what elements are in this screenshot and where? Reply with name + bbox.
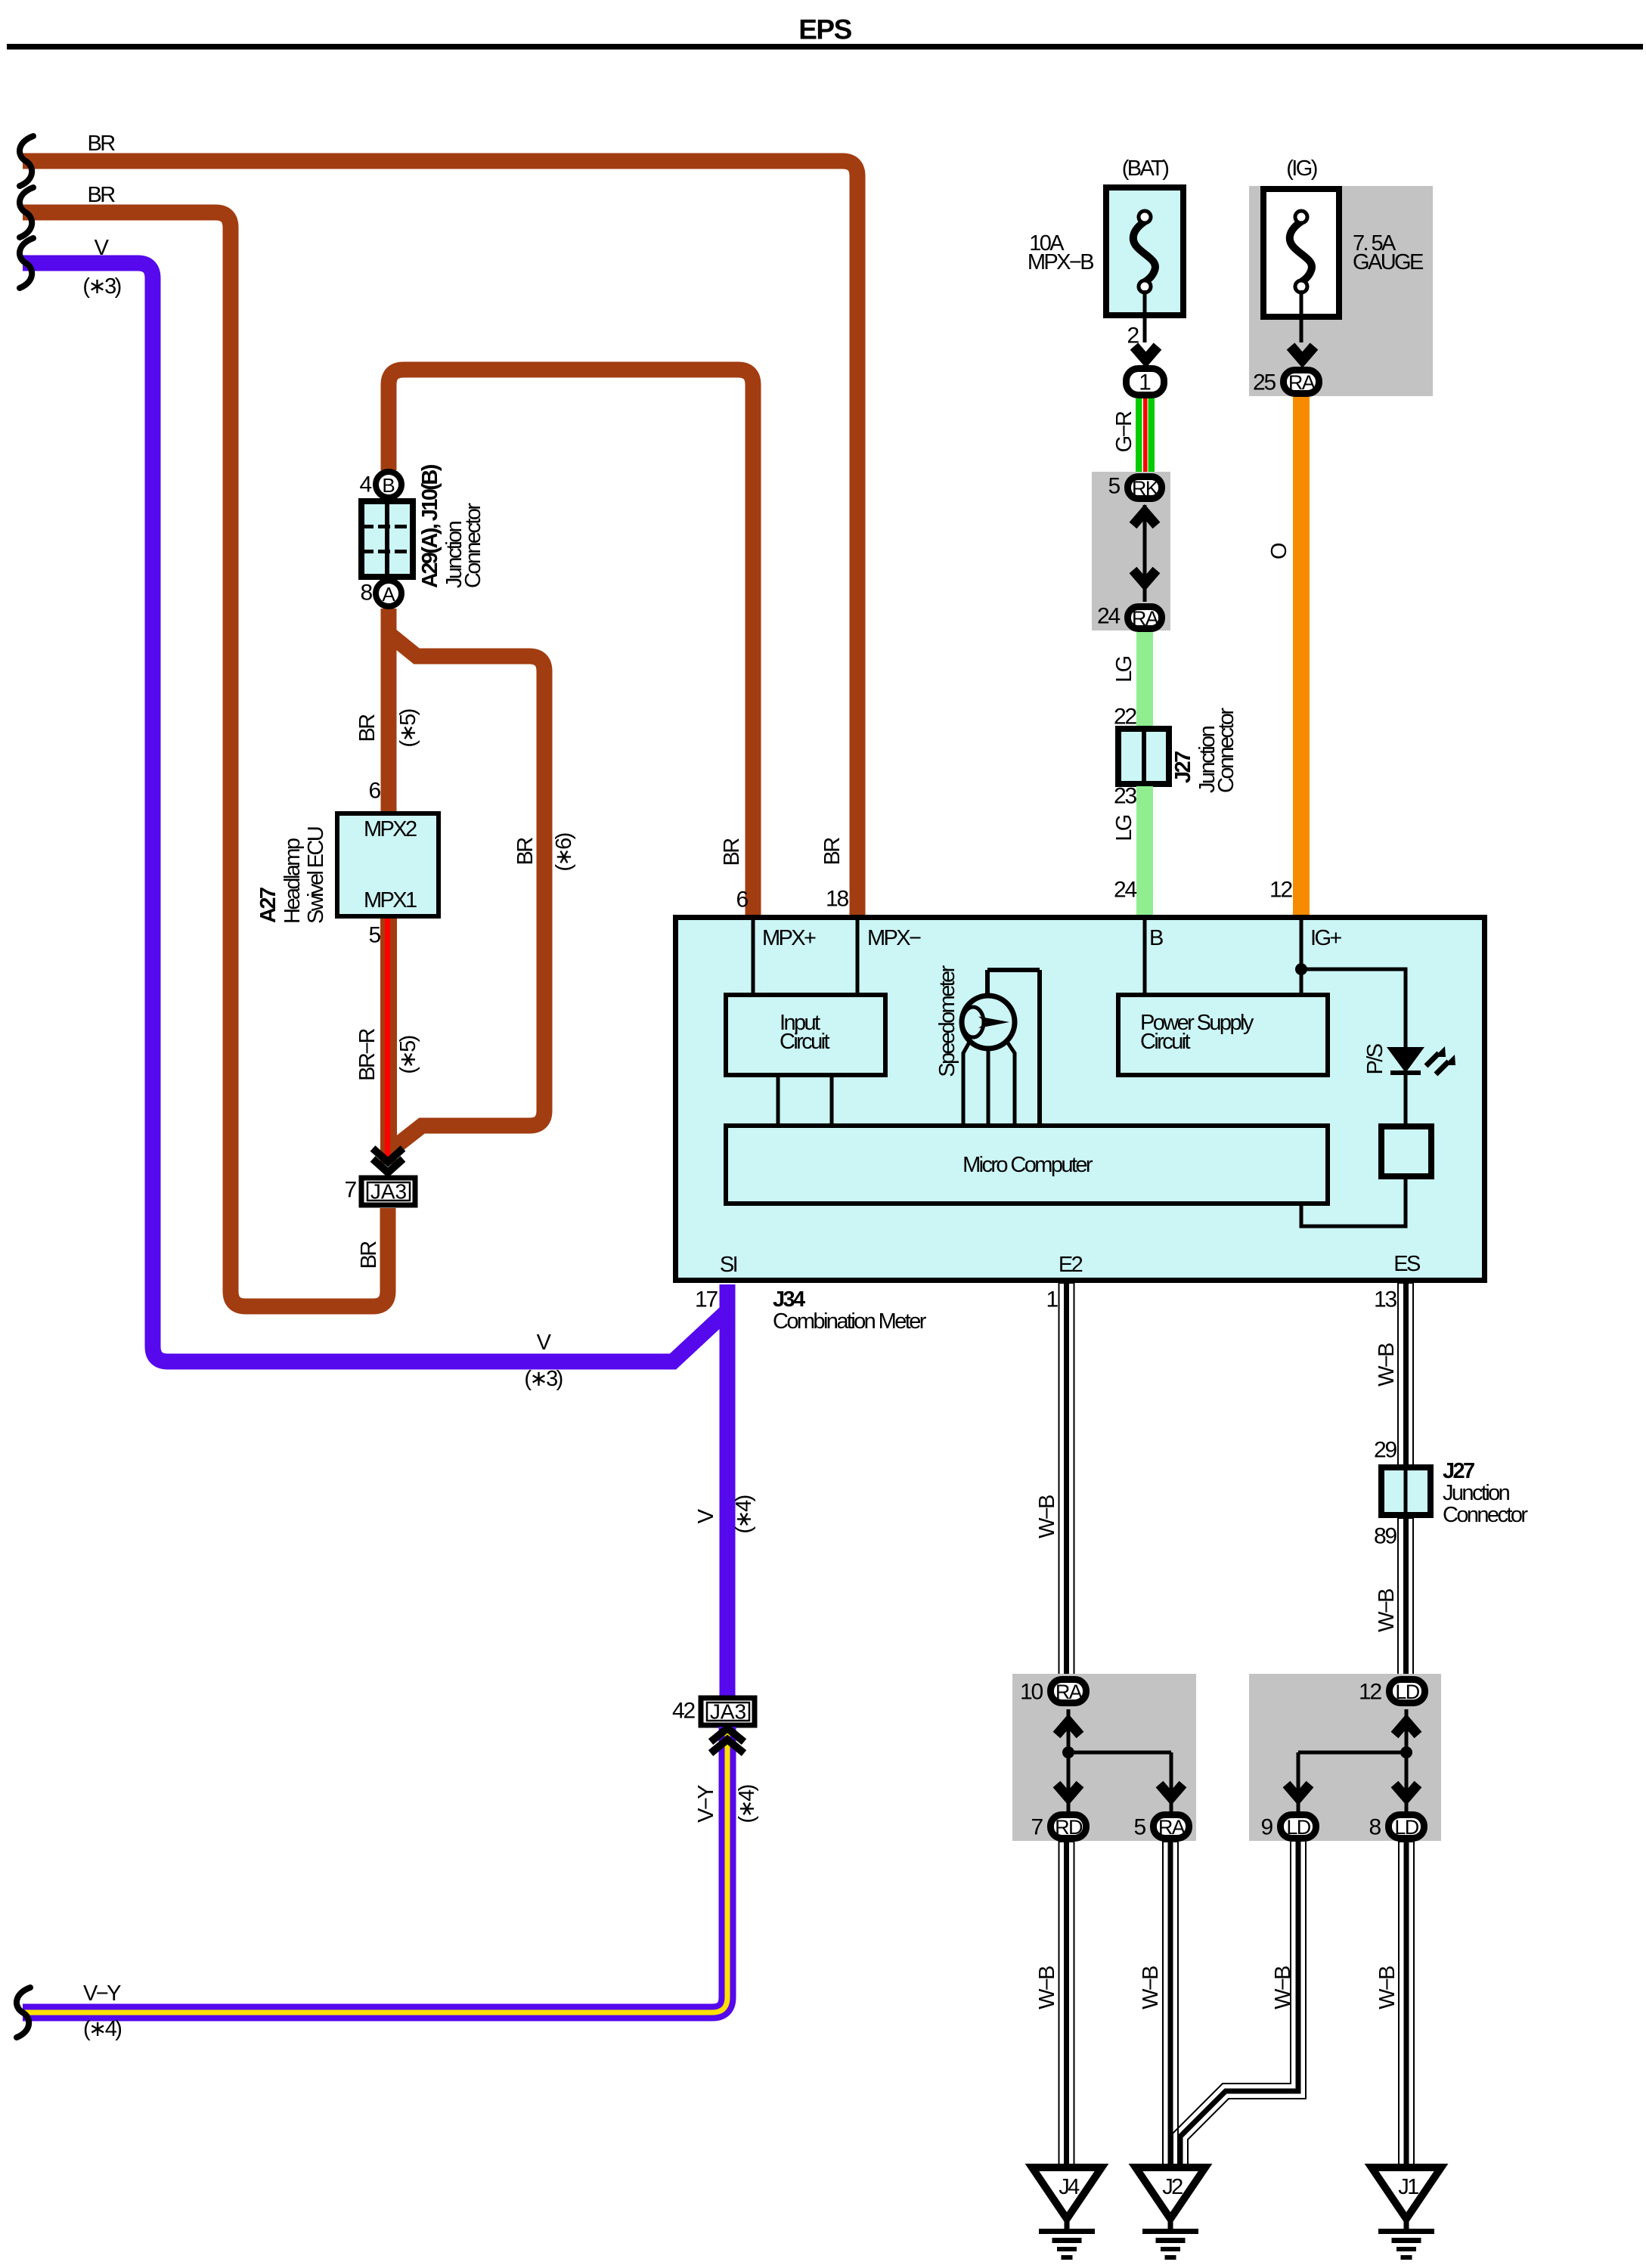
label BR (second wire) — [87, 183, 115, 207]
svg-text:(BAT): (BAT) — [1122, 156, 1169, 181]
wire V-Y (violet with yellow stripe) — [23, 1727, 727, 2012]
arrow down into RA 5 — [1160, 1784, 1183, 1798]
fuse 7.5A GAUGE (IG) grey block — [1249, 186, 1433, 396]
junction connector JA3 (pin 7) — [361, 1178, 415, 1205]
connector oval RD (pin 7) — [1051, 1815, 1086, 1839]
wire BR (top, feeds J34 MPX- pin 18) — [23, 161, 857, 916]
junction connector A29(A), J10(B) — [361, 501, 413, 577]
svg-text:IG+: IG+ — [1310, 926, 1341, 950]
pin IG+ stub — [1300, 920, 1303, 995]
label 89 (J27 pin) — [1374, 1524, 1396, 1549]
svg-text:7: 7 — [1031, 1815, 1043, 1840]
wire W-B (LD 8 to ground J1) — [1399, 1842, 1414, 2169]
micro computer box — [726, 1126, 1328, 1204]
label 5 (RA pin) — [1134, 1815, 1146, 1840]
speedometer symbol — [962, 970, 1040, 1126]
label B — [1149, 926, 1163, 950]
svg-text:ES: ES — [1393, 1252, 1421, 1276]
double arrow into JA3 (pin 42) — [711, 1728, 744, 1753]
connector oval 1 — [1127, 369, 1164, 395]
label 1 (E2 pin) — [1046, 1287, 1059, 1312]
svg-text:Connector: Connector — [1214, 708, 1238, 793]
svg-text:(∗3): (∗3) — [524, 1367, 562, 1391]
input circuit box — [726, 995, 885, 1075]
wire BR loop (A29 pin B up and over to J34 MPX+ pin 6) — [389, 370, 753, 916]
svg-text:LD: LD — [1286, 1816, 1310, 1839]
svg-text:GAUGE: GAUGE — [1353, 250, 1424, 274]
svg-text:9: 9 — [1261, 1815, 1273, 1840]
junction connector J27 (upper) — [1118, 729, 1169, 784]
connector block grey (RK/RA pins 5-24) — [1092, 472, 1170, 631]
title rule — [7, 44, 1643, 50]
wire W-B (RD 7 to ground J4) — [1059, 1842, 1074, 2169]
wire link and branch (right grey block) — [1298, 1709, 1412, 1811]
svg-text:W−B: W−B — [1035, 1495, 1059, 1538]
svg-text:G−R: G−R — [1112, 411, 1136, 452]
label 6 (A27 MPX2 pin) — [369, 779, 381, 804]
connector circle B (pin 4) — [376, 472, 401, 497]
label V-Y rotated (below JA3 42) — [694, 1785, 718, 1823]
svg-text:5: 5 — [369, 923, 381, 948]
svg-text:BR−R: BR−R — [355, 1028, 380, 1080]
svg-text:Circuit: Circuit — [780, 1030, 830, 1054]
svg-text:1: 1 — [1046, 1287, 1059, 1312]
svg-text:5: 5 — [1134, 1815, 1146, 1840]
wire driver box to micro computer — [1301, 1176, 1406, 1226]
svg-text:RA: RA — [1158, 1816, 1186, 1839]
arrow up into LD 12 — [1395, 1721, 1418, 1735]
label Headlamp rotated — [281, 838, 305, 924]
label MPX+ — [762, 926, 816, 950]
label 4 (pin B) — [360, 472, 372, 497]
svg-text:J1: J1 — [1398, 2175, 1418, 2199]
pin MPX- stub — [856, 920, 860, 995]
svg-text:EPS: EPS — [798, 14, 851, 45]
svg-text:13: 13 — [1374, 1287, 1396, 1312]
svg-text:MPX−B: MPX−B — [1028, 250, 1093, 274]
svg-text:BR: BR — [87, 183, 115, 207]
svg-text:A29(A), J10(B): A29(A), J10(B) — [418, 464, 442, 588]
label Connector rotated (A29) — [461, 503, 485, 588]
connector oval LD (pin 8) — [1389, 1815, 1424, 1839]
label SI — [720, 1253, 737, 1277]
ECU A27 Headlamp Swivel ECU — [337, 813, 439, 916]
wire W-B (LD 9 bends left into ground J2) — [1173, 1842, 1306, 2169]
wire-break squiggle (top BR) — [20, 136, 33, 186]
svg-text:LD: LD — [1395, 1681, 1419, 1703]
label 8 (pin A) — [361, 581, 373, 606]
label ES — [1393, 1252, 1421, 1276]
label (*4) rotated (below SI) — [732, 1495, 756, 1533]
svg-text:(∗4): (∗4) — [735, 1785, 759, 1823]
input circuit to micro computer stubs — [778, 1075, 832, 1126]
label O rotated — [1267, 543, 1291, 559]
wire (BAT fuse pin 2 lead) — [1143, 290, 1147, 342]
label BR (top wire) — [87, 132, 115, 156]
wire BR (second, to JA3 pin 7 via bottom run) — [23, 212, 388, 1306]
svg-text:6: 6 — [369, 779, 381, 804]
label 23 (J27 pin) — [1114, 784, 1136, 809]
connector circle A (pin 8) — [376, 581, 401, 606]
svg-text:V−Y: V−Y — [83, 1981, 121, 2006]
label A29(A), J10(B) rotated bold — [418, 464, 442, 588]
label 13 (ES pin) — [1374, 1287, 1396, 1312]
label W-B rotated (ES wire lower) — [1375, 1589, 1399, 1632]
svg-text:V−Y: V−Y — [694, 1785, 718, 1823]
svg-text:BR: BR — [87, 132, 115, 156]
label 42 (JA3 pin) — [672, 1699, 695, 1724]
svg-text:B: B — [382, 474, 395, 497]
svg-text:1: 1 — [1139, 370, 1152, 395]
label BR-R rotated — [355, 1028, 380, 1080]
arrow up into RK — [1133, 512, 1157, 525]
wire G-R (green with red stripe) — [1136, 398, 1155, 474]
svg-text:17: 17 — [695, 1287, 718, 1312]
wire W-B (RA 5 to ground J2) — [1163, 1842, 1178, 2169]
label 25 (RA pin) — [1253, 370, 1276, 395]
svg-text:24: 24 — [1097, 604, 1120, 629]
label W-B rotated (LD 9 wire) — [1271, 1966, 1295, 2009]
wire V (violet, to J34 SI pin 17) — [23, 263, 727, 1697]
label 9 (LD pin) — [1261, 1815, 1273, 1840]
label (*4) rotated (below JA3 42) — [735, 1785, 759, 1823]
label 12 (J34 IG+ pin) — [1269, 878, 1292, 903]
svg-text:6: 6 — [736, 888, 749, 912]
arrow up into RA 10 — [1057, 1721, 1080, 1735]
label W-B rotated (E2 wire) — [1035, 1495, 1059, 1538]
node dot on IG+ line — [1295, 963, 1307, 975]
svg-text:LG: LG — [1112, 656, 1136, 683]
svg-text:Connector: Connector — [461, 503, 485, 588]
junction connector JA3 (pin 42) — [701, 1698, 755, 1725]
label V (horizontal run) — [537, 1331, 552, 1355]
svg-text:J27: J27 — [1443, 1459, 1474, 1483]
label 17 (J34 SI pin) — [695, 1287, 718, 1312]
pin B stub — [1143, 920, 1147, 995]
driver box (below LED) — [1381, 1126, 1431, 1176]
label (*5) rotated (BR-R wire) — [396, 1036, 420, 1074]
svg-text:W−B: W−B — [1375, 1589, 1399, 1632]
label Junction (lower) — [1443, 1481, 1510, 1505]
label (*3) (horizontal run) — [524, 1367, 562, 1391]
label J27 bold (lower) — [1443, 1459, 1474, 1483]
label MPX- — [867, 926, 921, 950]
svg-text:W−B: W−B — [1271, 1966, 1295, 2009]
wire-break squiggle (second BR) — [20, 187, 33, 237]
svg-text:18: 18 — [826, 887, 848, 912]
connector block grey (RA/RD/RA pins) — [1012, 1674, 1196, 1841]
label 5 (RK pin) — [1108, 474, 1121, 499]
wire-break squiggle (V) — [20, 238, 33, 288]
junction connector J27 (lower) — [1381, 1467, 1431, 1515]
label 22 (J27 pin) — [1114, 705, 1136, 730]
svg-text:5: 5 — [1108, 474, 1121, 499]
wire IG+ to P/S LED — [1301, 969, 1406, 1047]
svg-text:89: 89 — [1374, 1524, 1396, 1549]
connector oval LD (pin 12) — [1390, 1680, 1425, 1704]
svg-text:(∗4): (∗4) — [83, 2017, 121, 2041]
svg-text:10: 10 — [1020, 1680, 1043, 1705]
svg-text:BR: BR — [357, 1241, 381, 1269]
wire link RK to RA — [1143, 505, 1147, 602]
title EPS — [798, 14, 851, 45]
svg-text:(∗4): (∗4) — [732, 1495, 756, 1533]
combination meter J34 box — [676, 918, 1485, 1281]
arrow down into RA — [1133, 570, 1157, 584]
svg-text:RA: RA — [1055, 1681, 1083, 1703]
svg-text:Micro Computer: Micro Computer — [962, 1153, 1093, 1177]
label (*5) rotated (above A27) — [396, 709, 420, 747]
svg-text:Connector: Connector — [1443, 1503, 1528, 1527]
label (*6) rotated (loop) — [552, 833, 576, 871]
wire-break squiggle (V-Y) — [17, 1988, 30, 2037]
svg-text:Junction: Junction — [1443, 1481, 1510, 1505]
svg-text:BR: BR — [720, 838, 744, 866]
svg-text:LD: LD — [1394, 1816, 1418, 1839]
label W-B rotated (J4 wire) — [1035, 1966, 1059, 2009]
svg-text:22: 22 — [1114, 705, 1136, 730]
pin MPX+ stub — [752, 920, 755, 995]
svg-text:J4: J4 — [1059, 2175, 1080, 2199]
label Combination Meter — [773, 1309, 927, 1334]
svg-text:29: 29 — [1374, 1438, 1396, 1463]
label A27 rotated bold — [256, 888, 281, 923]
label E2 — [1059, 1253, 1083, 1277]
wire BR-R (A27 MPX1 pin 5 down to JA3 pin 7) — [388, 919, 389, 1164]
wire LG (to J27 junction) — [1136, 632, 1153, 727]
arrow down into LD 9 — [1287, 1784, 1310, 1798]
label G-R rotated — [1112, 411, 1136, 452]
arrow down into RD 7 — [1057, 1784, 1080, 1798]
label BR rotated (MPX+ wire) — [720, 838, 744, 866]
label Connector (lower) — [1443, 1503, 1528, 1527]
svg-text:(IG): (IG) — [1286, 156, 1316, 181]
label 18 (J34 MPX- pin) — [826, 887, 848, 912]
label 7 (JA3 pin) — [345, 1178, 357, 1203]
wire LED to driver box — [1404, 1075, 1408, 1123]
svg-text:LG: LG — [1112, 815, 1136, 841]
wire (IG fuse lead) — [1300, 290, 1303, 342]
label BR rotated (*5 branch above A27) — [355, 714, 380, 742]
label V-Y (bottom run) — [83, 1981, 121, 2006]
label Swivel ECU rotated — [304, 827, 328, 924]
svg-text:7: 7 — [345, 1178, 357, 1203]
label Connector rotated (upper) — [1214, 708, 1238, 793]
label BR rotated (MPX- wire) — [820, 838, 845, 866]
svg-text:(∗5): (∗5) — [396, 709, 420, 747]
svg-text:W−B: W−B — [1375, 1343, 1399, 1387]
ground J2 — [1136, 2167, 1205, 2260]
label (*4) (bottom run) — [83, 2017, 121, 2041]
svg-text:V: V — [537, 1331, 552, 1355]
label 5 (A27 MPX1 pin) — [369, 923, 381, 948]
label W-B rotated (ES wire upper) — [1375, 1343, 1399, 1387]
svg-text:Speedometer: Speedometer — [935, 965, 959, 1077]
svg-text:BR: BR — [820, 838, 845, 866]
svg-text:P/S: P/S — [1363, 1043, 1387, 1074]
svg-text:12: 12 — [1359, 1680, 1381, 1705]
svg-text:A: A — [382, 583, 395, 606]
label 6 (J34 MPX+ pin) — [736, 888, 749, 912]
svg-text:V: V — [694, 1508, 718, 1523]
label 24 (RA pin) — [1097, 604, 1120, 629]
svg-text:W−B: W−B — [1035, 1966, 1059, 2009]
svg-text:RA: RA — [1288, 371, 1316, 394]
double arrow into JA3 (pin 7) — [373, 1148, 403, 1173]
wire W-B (ES pin 13 down to J27) — [1398, 1283, 1413, 1467]
label 2 (fuse pin) — [1127, 324, 1139, 349]
svg-text:RD: RD — [1055, 1816, 1083, 1839]
svg-text:W−B: W−B — [1375, 1966, 1400, 2009]
svg-text:J27: J27 — [1171, 751, 1195, 783]
wire link and branch (left grey block) — [1062, 1709, 1171, 1811]
wire W-B (J27 down to grey block LD 12) — [1398, 1518, 1413, 1676]
wire W-B (E2 pin 1 down to grey block) — [1059, 1283, 1074, 1676]
label LG rotated (lower) — [1112, 815, 1136, 841]
arrow down into LD 8 — [1395, 1784, 1418, 1798]
svg-text:W−B: W−B — [1139, 1966, 1163, 2009]
wire BR branch (A29 pin A down, loop right of A27, to JA3 pin 7) — [389, 609, 544, 1151]
svg-text:SI: SI — [720, 1253, 737, 1277]
connector oval RK (pin 5) — [1128, 477, 1162, 500]
label J27 rotated (upper, bold) — [1171, 751, 1195, 783]
svg-text:Combination Meter: Combination Meter — [773, 1309, 927, 1334]
label 10 (RA pin) — [1020, 1680, 1043, 1705]
fuse 7.5A GAUGE (IG) — [1263, 156, 1424, 317]
label P/S rotated — [1363, 1043, 1387, 1074]
label 12 (LD pin) — [1359, 1680, 1381, 1705]
svg-text:JA3: JA3 — [370, 1180, 407, 1204]
svg-text:42: 42 — [672, 1699, 695, 1724]
wire LG (J27 to J34 B pin 24) — [1136, 786, 1153, 916]
label BR rotated (*6 loop) — [513, 838, 538, 866]
svg-text:(∗6): (∗6) — [552, 833, 576, 871]
ground J4 — [1032, 2167, 1102, 2260]
svg-text:8: 8 — [1369, 1815, 1381, 1840]
svg-text:J34: J34 — [773, 1287, 805, 1312]
connector oval RA (pin 10) — [1051, 1680, 1086, 1704]
label BR rotated (below JA3 7) — [357, 1241, 381, 1269]
svg-text:RA: RA — [1132, 607, 1159, 630]
arrow into connector RA 25 — [1291, 346, 1314, 360]
svg-text:(∗5): (∗5) — [396, 1036, 420, 1074]
connector block grey (LD pins) — [1249, 1674, 1441, 1841]
label V rotated (below SI) — [694, 1508, 718, 1523]
label V (left entry) — [95, 236, 110, 260]
svg-text:Swivel ECU: Swivel ECU — [304, 827, 328, 924]
connector oval RA (pin 25) — [1284, 370, 1319, 395]
label IG+ — [1310, 926, 1341, 950]
fuse 10A MPX-B (BAT) — [1028, 156, 1183, 315]
svg-text:B: B — [1149, 926, 1163, 950]
ground J1 — [1372, 2167, 1441, 2260]
svg-text:A27: A27 — [256, 888, 281, 923]
svg-text:(∗3): (∗3) — [82, 274, 120, 299]
svg-text:25: 25 — [1253, 370, 1276, 395]
connector oval RA (pin 24) — [1128, 607, 1162, 631]
label 7 (RD pin) — [1031, 1815, 1043, 1840]
svg-text:MPX1: MPX1 — [364, 888, 417, 912]
label 29 (J27 pin) — [1374, 1438, 1396, 1463]
svg-text:BR: BR — [355, 714, 380, 742]
svg-text:4: 4 — [360, 472, 372, 497]
label Junction rotated (upper) — [1195, 726, 1220, 793]
svg-text:E2: E2 — [1059, 1253, 1083, 1277]
svg-text:12: 12 — [1269, 878, 1292, 903]
label 24 (J34 B pin) — [1114, 878, 1136, 903]
svg-text:JA3: JA3 — [710, 1700, 746, 1724]
svg-text:MPX−: MPX− — [867, 926, 921, 950]
svg-text:Headlamp: Headlamp — [281, 838, 305, 924]
svg-text:8: 8 — [361, 581, 373, 606]
LED P/S indicator — [1387, 1046, 1455, 1075]
svg-text:23: 23 — [1114, 784, 1136, 809]
label Speedometer rotated — [935, 965, 959, 1077]
svg-text:RK: RK — [1132, 477, 1159, 500]
label 8 (LD pin) — [1369, 1815, 1381, 1840]
svg-text:24: 24 — [1114, 878, 1136, 903]
power supply circuit box — [1118, 995, 1328, 1075]
svg-text:MPX+: MPX+ — [762, 926, 816, 950]
svg-text:Circuit: Circuit — [1140, 1030, 1191, 1054]
label W-B rotated (J2 wire) — [1139, 1966, 1163, 2009]
arrow into connector 1 — [1134, 346, 1158, 360]
connector oval RA (pin 5) — [1154, 1815, 1189, 1839]
svg-text:O: O — [1267, 543, 1291, 559]
label Junction rotated (A29) — [442, 521, 467, 588]
svg-text:MPX2: MPX2 — [364, 817, 417, 841]
svg-text:BR: BR — [513, 838, 538, 866]
label W-B rotated (J1 wire) — [1375, 1966, 1400, 2009]
label (*3) (left entry) — [82, 274, 120, 299]
label J34 bold — [773, 1287, 805, 1312]
connector oval LD (pin 9) — [1281, 1815, 1316, 1839]
label LG rotated (upper) — [1112, 656, 1136, 683]
svg-text:J2: J2 — [1162, 2175, 1183, 2199]
wire O (orange, to J34 IG+ pin 12) — [1293, 397, 1310, 916]
